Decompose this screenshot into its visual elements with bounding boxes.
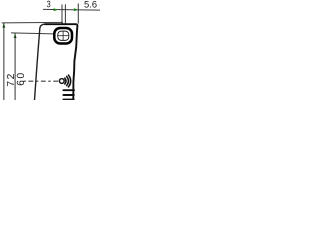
dashed centerline (24, 80, 59, 82)
crosshair horizontal (57, 35, 69, 37)
arrowhead left (green) (54, 8, 58, 11)
extension line hole center y34 (11, 33, 54, 34)
extension line a (61, 4, 63, 24)
dimension label 72 (rotated) (7, 74, 14, 86)
dimension label 3 (47, 1, 50, 8)
dimension label 5.6 (84, 1, 96, 8)
dimension label 60 (rotated) (17, 73, 24, 85)
crosshair vertical (62, 31, 64, 41)
terminal bar 1 (63, 89, 74, 91)
body top edge (thick) (45, 23, 77, 25)
extension line c (77, 4, 79, 24)
top dimension line (43, 8, 100, 11)
extension line top edge y22 (2, 21, 63, 24)
oval mounting boss outer (54, 28, 72, 44)
oval mounting boss inner (58, 31, 69, 40)
dimension line 72 (3, 23, 5, 100)
sound arc 2 (67, 77, 69, 86)
buzzer circle (59, 79, 64, 84)
arrowhead right (green) (74, 8, 78, 11)
extension line b (64, 4, 66, 24)
dimension line 60 (14, 33, 16, 100)
body front edge (thick, tapered) (73, 24, 77, 100)
arrowhead up 60 (green) (14, 34, 17, 38)
sound arc 1 (65, 78, 66, 84)
terminal bar 3 (63, 99, 73, 101)
terminal bar 2 (63, 94, 73, 96)
arrowhead up 72 (green) (2, 23, 5, 27)
sound arc 3 (68, 75, 70, 87)
body rear edge (tapered) (35, 24, 45, 100)
